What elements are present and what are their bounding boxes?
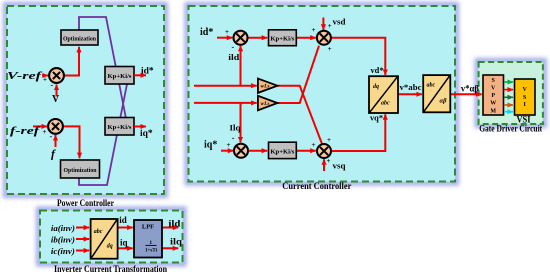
svg-text:+: + <box>43 76 47 84</box>
svg-text:Kp+Ki/s: Kp+Ki/s <box>108 74 133 80</box>
svg-text:V: V <box>52 94 60 105</box>
svg-text:v*αβ: v*αβ <box>461 84 479 94</box>
svg-text:ia(inv): ia(inv) <box>51 223 75 233</box>
svg-text:vsd: vsd <box>333 17 346 27</box>
svg-text:M: M <box>490 108 496 114</box>
svg-text:-: - <box>232 134 235 143</box>
svg-text:W: W <box>490 101 496 107</box>
svg-text:abc: abc <box>381 101 390 107</box>
svg-text:-: - <box>232 43 235 52</box>
svg-text:ild: ild <box>168 219 180 229</box>
svg-text:+: + <box>225 28 229 36</box>
svg-text:+: + <box>327 157 331 165</box>
svg-text:iq*: iq* <box>140 129 153 139</box>
svg-text:Optimization: Optimization <box>63 36 97 42</box>
svg-text:+: + <box>328 45 332 53</box>
svg-text:id: id <box>119 215 127 225</box>
svg-text:Ilq: Ilq <box>230 123 241 133</box>
svg-text:V-ref: V-ref <box>7 71 44 82</box>
svg-text:wLs: wLs <box>261 85 270 90</box>
svg-text:V: V <box>523 87 528 93</box>
svg-text:ic(inv): ic(inv) <box>51 246 75 256</box>
svg-text:vq*: vq* <box>370 113 383 123</box>
svg-text:v*abc: v*abc <box>400 82 422 92</box>
svg-text:Inverter Current Transformatio: Inverter Current Transformation <box>54 264 167 274</box>
svg-text:+: + <box>327 136 331 144</box>
svg-text:ild: ild <box>228 52 239 62</box>
svg-text:iq*: iq* <box>204 140 217 151</box>
svg-text:+: + <box>328 22 332 30</box>
svg-text:Power Controller: Power Controller <box>57 198 114 208</box>
svg-text:αβ: αβ <box>440 98 448 105</box>
svg-text:ilq: ilq <box>170 237 182 247</box>
svg-text:Kp+Ki/s: Kp+Ki/s <box>270 37 295 43</box>
svg-text:+: + <box>312 141 316 149</box>
svg-text:LPF: LPF <box>142 224 154 231</box>
svg-text:1+sTi: 1+sTi <box>145 248 158 253</box>
svg-text:Optimization: Optimization <box>64 168 98 174</box>
svg-text:Current Controller: Current Controller <box>282 181 351 191</box>
svg-text:ib(inv): ib(inv) <box>51 235 75 245</box>
svg-text:-: - <box>51 81 54 90</box>
svg-text:wLs: wLs <box>261 102 270 107</box>
svg-text:+: + <box>227 141 231 149</box>
svg-text:abc: abc <box>94 229 103 235</box>
svg-text:Kp+Ki/s: Kp+Ki/s <box>108 125 133 131</box>
svg-text:vsq: vsq <box>333 161 346 171</box>
svg-text:dq: dq <box>373 84 379 90</box>
svg-text:-: - <box>50 132 53 141</box>
svg-text:abc: abc <box>427 83 436 89</box>
svg-text:+: + <box>43 128 47 136</box>
svg-text:V: V <box>491 85 496 91</box>
svg-text:id*: id* <box>200 27 213 38</box>
svg-text:id*: id* <box>141 67 154 77</box>
svg-text:iq: iq <box>120 238 128 248</box>
svg-text:Gate Driver Circuit: Gate Driver Circuit <box>479 124 542 134</box>
svg-text:f-ref: f-ref <box>10 126 42 137</box>
svg-text:vd*: vd* <box>371 65 384 75</box>
svg-text:Kp+Ki/s: Kp+Ki/s <box>270 149 295 155</box>
svg-text:+: + <box>312 26 316 34</box>
svg-text:P: P <box>491 93 495 99</box>
svg-text:dq: dq <box>107 244 113 250</box>
